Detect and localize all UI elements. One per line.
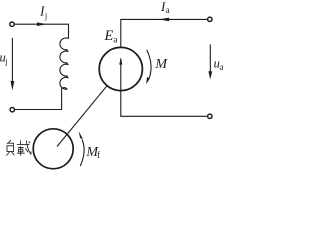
svg-text:a: a: [166, 5, 170, 15]
svg-text:E: E: [104, 28, 114, 44]
torque arc Mf: [80, 140, 84, 166]
label 负载: [6, 140, 31, 155]
inductor field winding: [60, 38, 69, 91]
voltage arrow ua: [209, 44, 211, 71]
current arrow Ij: [37, 22, 47, 26]
wire armature top: [121, 19, 207, 47]
torque arc M: [147, 50, 151, 78]
load circle: [33, 129, 73, 169]
wire field top: [15, 24, 69, 38]
terminal armature -: [208, 114, 212, 118]
svg-text:f: f: [97, 150, 100, 160]
svg-text:a: a: [220, 62, 223, 72]
shaft: [57, 86, 107, 147]
wire armature bottom: [121, 91, 207, 117]
svg-text:j: j: [44, 11, 47, 21]
Ea arrow: [120, 59, 122, 91]
machine armature circle: [99, 47, 142, 90]
terminal field +: [10, 22, 14, 26]
current arrow Ia: [159, 18, 169, 22]
svg-text:M: M: [154, 57, 168, 72]
svg-text:j: j: [4, 56, 7, 66]
wire field bottom: [15, 91, 62, 109]
terminal field -: [10, 108, 14, 112]
voltage arrow uj: [11, 38, 13, 82]
terminal armature +: [208, 17, 212, 21]
svg-text:a: a: [113, 35, 118, 45]
